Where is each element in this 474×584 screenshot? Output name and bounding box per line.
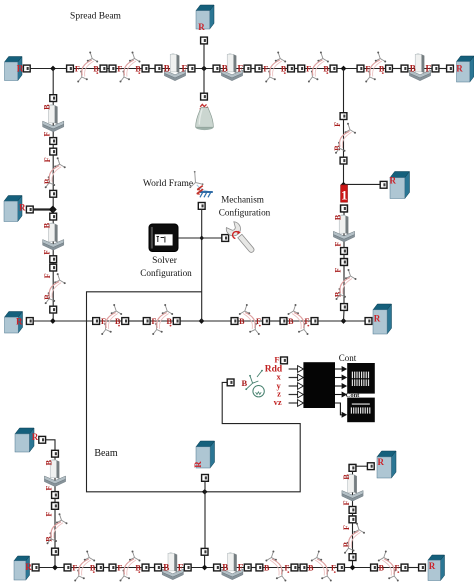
flexible beam joint right bottom: [342, 516, 365, 561]
wire right bottom brick to flex: [352, 513, 354, 516]
port R of row5-right solid: [419, 564, 426, 571]
port R of row5-left solid: [32, 564, 39, 571]
svg-text:1: 1: [341, 187, 348, 202]
wire row1 left box to flex1: [30, 68, 66, 70]
svg-text:F: F: [274, 354, 279, 364]
solid block R (center bottom): [193, 441, 215, 468]
flexible beam joint FB2 row5: [109, 551, 149, 582]
svg-text:B: B: [43, 104, 52, 110]
wire FB-A to FB-B row3: [129, 320, 144, 322]
svg-text:F: F: [43, 131, 52, 136]
wire left bottom brick to flex: [54, 498, 56, 502]
svg-text:F: F: [45, 512, 54, 517]
wire FB4 to FB5 row5: [344, 567, 370, 569]
svg-text:F: F: [44, 485, 53, 490]
wire FB2 to PJ1 row1: [149, 68, 155, 70]
svg-text:R: R: [16, 317, 23, 327]
svg-text:F: F: [333, 122, 342, 127]
wire left column B flex to row3: [52, 313, 54, 321]
flexible beam joint FB-D row3: [280, 304, 318, 335]
junction row5 center tap: [202, 565, 208, 571]
solid block R (top center): [196, 5, 214, 32]
port right bottom extra: [349, 516, 356, 523]
port right column extra: [341, 259, 348, 266]
solid block R (row3 right): [373, 304, 392, 334]
junction row2 left column: [49, 206, 57, 214]
svg-text:F: F: [342, 525, 351, 530]
wire FB-D to right box row3: [318, 320, 365, 322]
svg-text:R: R: [32, 432, 39, 442]
svg-text:Spread Beam: Spread Beam: [70, 12, 122, 22]
solid block R (right of red transform): [390, 172, 410, 199]
wire PJ1 to center cross row1: [195, 68, 213, 70]
mechanism configuration wrench icon: [224, 220, 258, 256]
port right bottom column top: [349, 465, 356, 472]
prismatic joint right column: [333, 205, 354, 254]
svg-text:R: R: [19, 203, 26, 213]
wire red transform to solid: [344, 183, 384, 185]
wire FB5 to PJ3 row1: [392, 68, 401, 70]
wire right bottom flex to row5: [352, 561, 354, 568]
wire top solid to row1 cross: [203, 44, 205, 93]
svg-text:R: R: [198, 22, 205, 32]
svg-text:B: B: [410, 64, 416, 74]
svg-text:B: B: [288, 317, 294, 326]
wire left column A to flex: [52, 144, 54, 148]
svg-text:B: B: [164, 64, 170, 74]
port below red transform: [341, 205, 348, 212]
svg-text:Solver: Solver: [152, 256, 178, 266]
wire world frame branch to beam loop: [87, 292, 301, 492]
svg-text:F: F: [178, 563, 184, 573]
wire center bottom column: [204, 481, 206, 548]
svg-text:B: B: [44, 459, 53, 465]
flexible beam joint FB3 row5: [256, 551, 298, 582]
junction solver line crossing: [199, 236, 204, 241]
wire PJ2 to FB3 row5: [251, 567, 256, 569]
wire row3 left box to FB-A: [33, 320, 92, 322]
port of mechanism configuration: [222, 235, 229, 242]
svg-text:F: F: [75, 64, 80, 73]
wire FB-C to FB-D row3: [269, 320, 280, 322]
svg-text:F: F: [72, 563, 77, 572]
svg-text:Cont: Cont: [339, 353, 357, 363]
svg-text:R: R: [429, 561, 436, 571]
port below top-center solid: [201, 37, 208, 44]
junction row3 left column tap: [50, 318, 56, 324]
svg-text:B: B: [43, 222, 52, 228]
svg-text:B: B: [333, 145, 342, 151]
svg-text:B: B: [222, 64, 228, 74]
wire world frame down to row3: [201, 209, 203, 321]
port R of row1-right solid: [447, 65, 454, 72]
flexible beam joint FB5 row5: [371, 551, 408, 582]
svg-text:B: B: [135, 64, 141, 73]
svg-text:B: B: [239, 317, 245, 326]
svg-text:F: F: [426, 64, 432, 74]
port R of row3-right solid: [365, 318, 372, 325]
svg-text:R: R: [390, 176, 397, 186]
svg-text:Configuration: Configuration: [219, 208, 271, 218]
solid block R (row5 right): [428, 555, 445, 581]
flexible beam joint FB-A row3: [93, 304, 129, 335]
svg-text:B: B: [342, 541, 351, 547]
junction row1 left column tap: [50, 66, 56, 72]
scope output arrows: [335, 366, 347, 418]
svg-text:Configuration: Configuration: [140, 268, 192, 278]
wire FB-B to world tap row3: [180, 320, 231, 322]
flexible beam joint FB1 row1: [67, 52, 107, 83]
flexible beam joint FB4 row1: [298, 52, 337, 83]
wire FB2 to PJ1 row5: [149, 567, 155, 569]
prismatic joint left bottom: [44, 450, 65, 498]
port above spherical joint: [201, 93, 208, 100]
flexible beam joint right column A: [333, 113, 356, 164]
svg-text:R: R: [374, 314, 381, 324]
port R of left-bottom solid: [39, 436, 46, 443]
junction row5 left column tap: [52, 565, 58, 571]
svg-text:F: F: [43, 250, 52, 255]
svg-text:B: B: [281, 64, 287, 73]
svg-text:vz: vz: [274, 397, 282, 407]
port below center-bottom solid: [202, 475, 209, 482]
flexible beam joint left column A: [43, 148, 66, 197]
svg-text:F: F: [238, 563, 244, 573]
prismatic joint PJ2 row1: [213, 53, 251, 81]
port R of row2 solid: [26, 206, 33, 213]
port R of right-bottom solid: [367, 463, 374, 470]
wire row2 junction down: [52, 210, 54, 214]
flexible beam joint FB2 row1: [109, 52, 149, 83]
wire FB1 to FB2 row1: [107, 68, 109, 70]
wire right column flex to red transform: [343, 164, 345, 185]
svg-text:B: B: [342, 474, 351, 480]
svg-text:F: F: [43, 157, 52, 162]
junction row3 right column tap: [341, 318, 347, 324]
transform sensor icon: [241, 370, 264, 397]
wire right column flex to row3: [343, 310, 346, 321]
port left bottom extra: [52, 503, 59, 510]
svg-text:F: F: [333, 241, 342, 246]
svg-text:B: B: [241, 378, 247, 388]
prismatic joint PJ3 row1: [401, 53, 439, 81]
svg-text:B: B: [323, 64, 329, 73]
wire FB5 to right box row5: [408, 567, 419, 569]
display block 1: [347, 363, 375, 394]
svg-text:F: F: [182, 64, 188, 74]
wire row5 left box to FB1: [39, 567, 64, 569]
port F of transform sensor: [281, 357, 288, 364]
red rigid transform block 1: [341, 185, 348, 202]
world frame icon: [189, 171, 212, 197]
junction red transform tap: [341, 182, 346, 187]
display block 2: [347, 398, 375, 423]
wire right column brick to flex: [343, 254, 345, 258]
port center bottom above row5: [201, 548, 208, 555]
svg-text:B: B: [167, 317, 173, 326]
flexible beam joint right column B: [334, 259, 357, 311]
svg-text:F: F: [256, 317, 261, 326]
wire left column flex to row2 junction: [52, 197, 54, 209]
prismatic joint PJ1 row5: [155, 552, 192, 580]
svg-text:F: F: [238, 64, 244, 74]
prismatic joint left column B: [43, 213, 64, 262]
wire left bottom elbow: [46, 440, 55, 451]
svg-text:F: F: [342, 500, 351, 505]
svg-text:F: F: [331, 563, 336, 572]
flexible beam joint FB-C row3: [231, 304, 269, 335]
svg-text:B: B: [90, 563, 96, 572]
svg-text:F: F: [285, 563, 290, 572]
svg-text:F: F: [117, 563, 122, 572]
svg-text:F: F: [306, 64, 311, 73]
svg-text:R: R: [378, 457, 385, 467]
flexible beam joint left column B: [43, 264, 66, 313]
wire row2 thick: [33, 208, 53, 210]
wire solver to mechanism config: [178, 237, 222, 239]
svg-text:F: F: [263, 64, 268, 73]
wire left bottom flex to row5: [54, 555, 56, 567]
solid block R (row1 right): [456, 56, 474, 82]
port B of transform sensor: [227, 379, 234, 386]
wire center bottom port to row5: [204, 555, 206, 567]
wire row1 tap down right column: [343, 69, 345, 113]
svg-text:B: B: [379, 563, 385, 572]
svg-text:World Frame: World Frame: [143, 179, 193, 189]
flexible beam joint FB5 row1: [357, 52, 392, 83]
port of world frame: [198, 203, 205, 210]
solid block R (row2 left): [4, 196, 26, 222]
wire left column B to flex: [52, 263, 54, 265]
flexible beam joint FB3 row1: [255, 52, 294, 83]
port R of row1-left solid: [23, 65, 30, 72]
scope mux block (black): [303, 362, 335, 408]
signal lines into scope mux: [289, 366, 304, 407]
junction row1 center cross: [201, 66, 207, 72]
svg-text:R: R: [456, 64, 463, 74]
junction row3 world frame tap: [199, 318, 205, 324]
wire FB3 to FB4 row1: [294, 68, 298, 70]
solid block R (row1 left): [5, 57, 24, 81]
wire FB3 to FB4 row5: [298, 567, 300, 569]
svg-text:B: B: [379, 64, 385, 73]
svg-text:F: F: [43, 273, 52, 278]
svg-text:B: B: [308, 563, 314, 572]
flexible beam joint FB4 row5: [300, 551, 344, 582]
svg-text:B: B: [222, 563, 228, 573]
port R of row3-left solid: [26, 318, 33, 325]
wire PJ1 to center tap row5: [191, 567, 214, 569]
wire PJ2 to FB3 row1: [251, 68, 255, 70]
prismatic joint right bottom: [342, 465, 363, 514]
flexible beam joint left bottom: [45, 503, 68, 556]
svg-text:B: B: [93, 64, 99, 73]
solid block R (row3 left): [5, 312, 24, 334]
solid block R (left bottom feed): [15, 428, 39, 452]
wire row1 tap down left column: [52, 69, 54, 95]
svg-text:R: R: [25, 562, 32, 572]
junction beam loop to center column: [202, 489, 208, 495]
flexible beam joint FB-B row3: [143, 304, 180, 335]
solver configuration block: [149, 224, 178, 252]
svg-text:R: R: [193, 461, 203, 468]
flexible beam joint FB1 row5: [64, 551, 103, 582]
svg-text:Mechanism: Mechanism: [221, 195, 264, 205]
wire FB1 to FB2 row5: [103, 567, 109, 569]
svg-text:B: B: [115, 317, 121, 326]
solid block R (row5 left): [14, 556, 32, 580]
wire red transform to right brick: [343, 212, 345, 213]
wire PJ3 to right box row1: [439, 68, 447, 70]
spherical joint bell block (top center): [196, 104, 214, 130]
junction row5 right column tap: [350, 565, 356, 571]
svg-text:B: B: [264, 563, 270, 572]
prismatic joint PJ1 row1: [155, 53, 195, 81]
svg-text:B: B: [163, 563, 169, 573]
svg-text:B: B: [135, 563, 141, 572]
solid block R (right bottom feed): [377, 451, 396, 478]
prismatic joint PJ2 row5: [214, 552, 252, 580]
junction row1 right column tap: [341, 66, 347, 72]
svg-text:F: F: [117, 64, 122, 73]
svg-text:Beam: Beam: [94, 448, 118, 459]
wire right bottom link: [356, 465, 368, 467]
prismatic joint left column A: [43, 95, 64, 145]
svg-text:B: B: [333, 214, 342, 220]
port R of red-transform solid: [380, 181, 387, 188]
wire FB4 to FB5 row1: [337, 68, 357, 70]
svg-text:F: F: [334, 268, 343, 273]
